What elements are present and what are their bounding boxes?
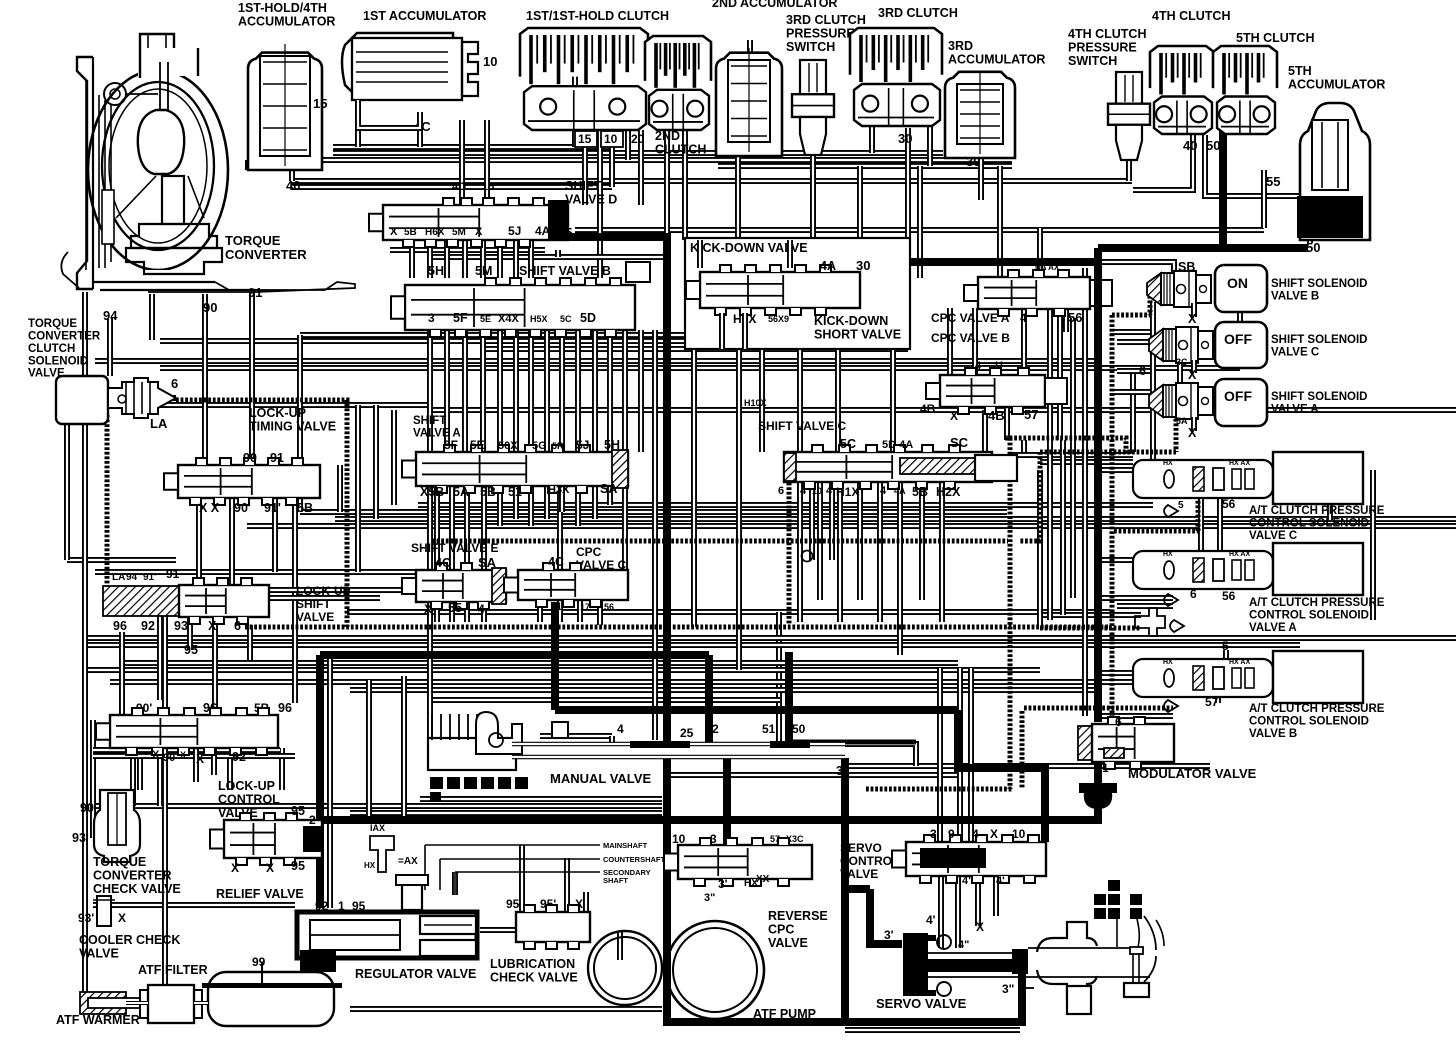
svg-text:50: 50 [792,722,806,736]
svg-text:SC: SC [950,435,969,450]
svg-text:17: 17 [580,602,590,612]
svg-text:PRESSURE: PRESSURE [1068,41,1137,55]
svg-text:25: 25 [558,225,572,240]
svg-text:5M: 5M [452,227,466,238]
svg-text:95: 95 [291,859,305,873]
svg-text:96: 96 [113,619,127,633]
svg-text:SHIFT: SHIFT [565,179,601,193]
svg-text:SHIFT: SHIFT [413,415,446,427]
svg-text:SHORT VALVE: SHORT VALVE [814,328,901,342]
svg-text:3RD CLUTCH: 3RD CLUTCH [878,6,958,20]
svg-text:SERVO: SERVO [840,841,882,855]
svg-text:56: 56 [1222,497,1236,511]
svg-text:COUNTERSHAFT: COUNTERSHAFT [603,855,665,864]
svg-text:1: 1 [664,766,671,780]
svg-text:H3X: H3X [548,484,570,496]
svg-text:95: 95 [291,804,305,818]
svg-text:X: X [231,861,239,875]
svg-text:X: X [118,911,126,925]
svg-text:3': 3' [884,928,894,942]
svg-text:X: X [950,409,958,423]
svg-text:5B: 5B [480,485,496,499]
svg-text:X: X [990,827,998,841]
svg-text:=AX: =AX [398,856,418,867]
svg-text:96: 96 [278,701,292,715]
svg-text:3RD: 3RD [948,39,973,53]
svg-text:90: 90 [80,801,94,815]
svg-text:CONTROL SOLENOID: CONTROL SOLENOID [1249,609,1369,621]
svg-text:ACCUMULATOR: ACCUMULATOR [948,53,1045,67]
svg-text:5J: 5J [576,438,589,452]
svg-text:1ST/1ST-HOLD CLUTCH: 1ST/1ST-HOLD CLUTCH [526,9,669,23]
svg-text:3: 3 [723,766,730,780]
svg-text:4': 4' [926,913,936,927]
svg-text:MANUAL VALVE: MANUAL VALVE [550,771,651,786]
svg-text:40: 40 [1183,138,1197,153]
svg-text:5H: 5H [604,438,620,452]
svg-text:3: 3 [930,827,937,841]
svg-text:H6X: H6X [425,227,445,238]
svg-text:25: 25 [680,726,694,740]
svg-text:4: 4 [972,827,979,841]
svg-text:55: 55 [448,601,462,615]
svg-text:5E: 5E [470,438,485,452]
svg-text:5F: 5F [453,311,468,325]
svg-text:3': 3' [718,877,728,891]
svg-text:5D: 5D [580,311,596,325]
svg-text:4: 4 [880,485,887,497]
svg-text:4A: 4A [894,486,906,496]
svg-text:3: 3 [428,311,435,325]
svg-text:MODULATOR VALVE: MODULATOR VALVE [1128,766,1257,781]
svg-text:CONTROL SOLENOID: CONTROL SOLENOID [1249,517,1369,529]
svg-text:1ST-HOLD/4TH: 1ST-HOLD/4TH [238,1,327,15]
svg-text:SOLENOID: SOLENOID [28,355,88,367]
svg-text:91: 91 [270,451,284,465]
svg-text:SHIFT VALVE E: SHIFT VALVE E [411,541,499,555]
svg-text:SHIFT SOLENOID: SHIFT SOLENOID [1271,278,1367,290]
svg-text:15: 15 [578,132,592,146]
svg-text:50: 50 [1306,240,1320,255]
svg-text:ATF PUMP: ATF PUMP [753,1007,816,1021]
svg-text:SWITCH: SWITCH [1068,54,1117,68]
svg-text:99: 99 [252,955,266,969]
svg-text:4: 4 [975,360,982,372]
svg-text:CPC: CPC [768,923,794,937]
svg-text:X: X [266,861,274,875]
svg-text:5M: 5M [475,264,492,278]
svg-text:HX AX: HX AX [1229,551,1250,558]
svg-text:COOLER CHECK: COOLER CHECK [79,933,180,947]
svg-text:4": 4" [962,875,973,887]
svg-text:X X: X X [199,501,220,515]
svg-text:56: 56 [1222,589,1236,603]
svg-text:9: 9 [948,827,955,841]
svg-text:HX AX: HX AX [1229,659,1250,666]
svg-text:SA: SA [600,482,617,496]
svg-text:51: 51 [762,722,776,736]
svg-text:5E: 5E [480,314,491,324]
svg-text:VALVE: VALVE [768,936,808,950]
svg-text:5B: 5B [404,227,417,238]
svg-text:95: 95 [506,897,520,911]
svg-text:VALVE B: VALVE B [1271,290,1319,302]
svg-text:94: 94 [126,572,138,583]
svg-text:5F: 5F [444,438,458,452]
svg-text:56: 56 [604,602,614,612]
svg-text:56: 56 [1068,310,1082,325]
svg-text:VALVE C: VALVE C [1271,346,1319,358]
svg-text:2: 2 [712,722,719,736]
svg-text:3C: 3C [1176,357,1188,367]
svg-text:4A: 4A [820,259,836,273]
svg-text:HX: HX [1163,659,1173,666]
svg-text:94: 94 [103,308,118,323]
svg-text:X: X [1188,426,1197,440]
svg-text:CONTROL: CONTROL [218,793,280,807]
svg-text:10: 10 [1012,827,1026,841]
svg-text:2ND: 2ND [655,129,680,143]
svg-text:VALVE: VALVE [840,867,878,881]
svg-text:LOCK-UP: LOCK-UP [249,406,306,420]
svg-text:4C: 4C [548,555,564,569]
svg-text:5R: 5R [552,441,564,451]
svg-text:1: 1 [556,601,562,613]
svg-text:50: 50 [1206,138,1220,153]
svg-text:10: 10 [483,54,497,69]
svg-text:H10X: H10X [744,398,767,408]
svg-text:SHIFT VALVE B: SHIFT VALVE B [519,264,611,278]
svg-text:5G: 5G [532,440,547,452]
svg-text:3RD CLUTCH: 3RD CLUTCH [786,13,866,27]
svg-text:TORQUE: TORQUE [28,318,77,330]
svg-text:X5B: X5B [420,485,444,499]
svg-text:CLUTCH: CLUTCH [655,143,706,157]
svg-text:4": 4" [958,939,969,951]
svg-text:6: 6 [171,376,178,391]
svg-text:VALVE C: VALVE C [1249,530,1297,542]
svg-text:X: X [1188,368,1197,382]
svg-text:90': 90' [234,501,251,515]
svg-text:OFF: OFF [1224,388,1252,404]
svg-text:CPC: CPC [576,545,602,559]
svg-text:PRESSURE: PRESSURE [786,27,855,41]
svg-text:SHIFT SOLENOID: SHIFT SOLENOID [1271,334,1367,346]
svg-text:30: 30 [856,258,870,273]
svg-text:4: 4 [617,722,624,736]
svg-text:IAX: IAX [370,823,385,833]
svg-text:CHECK VALVE: CHECK VALVE [490,971,578,985]
svg-text:92: 92 [232,750,246,764]
svg-text:SHIFT: SHIFT [296,597,331,611]
svg-text:RELIEF VALVE: RELIEF VALVE [216,887,304,901]
svg-text:4: 4 [800,485,807,497]
svg-text:LOCK-UP: LOCK-UP [218,779,275,793]
svg-text:6: 6 [778,485,784,497]
svg-text:ATF FILTER: ATF FILTER [138,963,208,977]
svg-text:REGULATOR VALVE: REGULATOR VALVE [355,967,476,981]
svg-text:XX: XX [756,874,770,885]
svg-text:H1X: H1X [836,485,859,499]
svg-text:LA: LA [150,416,168,431]
svg-text:CONTROL SOLENOID: CONTROL SOLENOID [1249,715,1369,727]
svg-text:95: 95 [184,643,198,657]
svg-text:3": 3" [836,764,849,778]
svg-text:OFF: OFF [1224,331,1252,347]
svg-text:4: 4 [478,602,485,616]
svg-text:4B: 4B [988,408,1005,423]
svg-text:30: 30 [898,131,912,146]
svg-text:MAINSHAFT: MAINSHAFT [603,841,648,850]
svg-text:SHIFT VALVE C: SHIFT VALVE C [758,419,847,433]
svg-text:SWITCH: SWITCH [786,40,835,54]
svg-text:93: 93 [72,831,86,845]
svg-text:3": 3" [1002,982,1014,996]
svg-text:KICK-DOWN: KICK-DOWN [814,314,888,328]
svg-text:15: 15 [482,181,494,193]
svg-text:HX AX: HX AX [1229,460,1250,467]
svg-text:HX: HX [1163,460,1173,467]
svg-text:5B: 5B [297,501,313,515]
svg-text:H5X: H5X [530,314,548,324]
svg-text:X: X [208,619,217,633]
svg-text:5: 5 [1222,639,1229,653]
svg-text:5A: 5A [453,485,469,499]
svg-text:ACCUMULATOR: ACCUMULATOR [1288,78,1385,92]
svg-text:ON: ON [1227,275,1248,291]
svg-text:5D 4A: 5D 4A [882,439,913,451]
svg-text:VALVE A: VALVE A [1271,403,1319,415]
svg-text:VALVE D: VALVE D [565,193,617,207]
svg-text:1: 1 [1102,761,1109,775]
svg-text:56X9: 56X9 [768,314,789,324]
svg-text:4D: 4D [452,181,466,193]
svg-text:TIMING VALVE: TIMING VALVE [249,420,336,434]
svg-text:X: X [180,750,186,760]
svg-text:4A: 4A [535,224,551,238]
svg-text:CLUTCH: CLUTCH [28,343,75,355]
svg-text:CPC VALVE B: CPC VALVE B [931,331,1010,345]
svg-text:H2X: H2X [936,485,961,499]
svg-text:5TH CLUTCH: 5TH CLUTCH [1236,31,1314,45]
svg-text:X: X [390,226,398,238]
svg-text:REVERSE: REVERSE [768,909,828,923]
svg-text:CHECK VALVE: CHECK VALVE [93,882,181,896]
svg-text:91': 91' [143,572,157,583]
svg-text:X: X [475,226,483,238]
svg-text:6: 6 [1115,715,1122,729]
svg-text:91': 91' [264,501,281,515]
svg-text:ATF WARMER: ATF WARMER [56,1013,140,1027]
svg-text:5TH: 5TH [1288,64,1312,78]
svg-text:10: 10 [812,486,822,496]
svg-text:VALVE: VALVE [296,610,334,624]
svg-text:5J: 5J [508,224,521,238]
svg-text:CONVERTER: CONVERTER [225,247,307,262]
svg-text:4TH CLUTCH: 4TH CLUTCH [1152,9,1230,23]
svg-text:SA: SA [478,555,497,570]
svg-text:4C: 4C [435,556,451,570]
svg-text:40: 40 [286,178,300,193]
svg-text:5B: 5B [912,485,928,499]
svg-text:91: 91 [166,567,180,581]
svg-text:5: 5 [1178,500,1184,511]
svg-text:6: 6 [1190,587,1197,601]
svg-text:91: 91 [248,285,262,300]
svg-text:CONVERTER: CONVERTER [28,330,101,342]
svg-text:57: 57 [1024,407,1038,422]
svg-text:92: 92 [141,619,155,633]
svg-text:5H: 5H [428,264,444,278]
svg-text:ACCUMULATOR: ACCUMULATOR [238,15,335,29]
svg-text:TORQUE: TORQUE [93,855,146,869]
svg-text:4: 4 [826,485,833,497]
svg-text:6: 6 [234,619,241,633]
svg-text:4: 4 [1020,311,1027,325]
svg-text:VALVE B: VALVE B [1249,728,1297,740]
svg-text:90: 90 [163,752,175,764]
svg-text:VALVE: VALVE [79,947,119,961]
svg-text:LOCK-UP: LOCK-UP [296,584,351,598]
svg-text:HX: HX [1163,551,1173,558]
svg-text:HX: HX [364,861,376,870]
svg-text:55: 55 [1266,174,1280,189]
svg-text:A/T CLUTCH PRESSURE: A/T CLUTCH PRESSURE [1249,597,1385,609]
svg-text:50X: 50X [498,440,518,452]
svg-text:SHIFT SOLENOID: SHIFT SOLENOID [1271,391,1367,403]
svg-text:51: 51 [508,485,522,499]
svg-text:93: 93 [174,619,188,633]
svg-text:LA: LA [112,572,125,583]
svg-text:4B: 4B [920,402,936,416]
svg-text:U: U [995,360,1003,372]
svg-text:X: X [152,749,160,761]
svg-text:DA AX: DA AX [1035,263,1060,272]
svg-text:TORQUE: TORQUE [225,233,281,248]
svg-text:2ND ACCUMULATOR: 2ND ACCUMULATOR [712,0,837,10]
svg-text:A/T CLUTCH PRESSURE: A/T CLUTCH PRESSURE [1249,703,1385,715]
svg-text:10: 10 [604,132,618,146]
svg-text:5A: 5A [1176,416,1188,426]
svg-text:VALVE A: VALVE A [1249,622,1297,634]
svg-text:15: 15 [313,96,327,111]
svg-text:CONVERTER: CONVERTER [93,869,171,883]
svg-text:5C: 5C [560,314,572,324]
svg-text:57: 57 [1205,695,1219,709]
svg-text:X4X: X4X [498,313,519,325]
svg-text:X: X [424,602,432,616]
svg-text:4': 4' [996,875,1005,887]
svg-text:X: X [196,752,204,766]
svg-text:4TH CLUTCH: 4TH CLUTCH [1068,27,1146,41]
svg-text:6: 6 [1139,364,1146,378]
svg-text:X: X [1188,312,1197,326]
svg-text:1ST ACCUMULATOR: 1ST ACCUMULATOR [363,9,486,23]
svg-text:CONTROL: CONTROL [840,854,899,868]
svg-text:SERVO VALVE: SERVO VALVE [876,996,967,1011]
svg-text:1: 1 [306,947,313,961]
svg-text:X: X [976,920,984,934]
svg-text:LUBRICATION: LUBRICATION [490,957,575,971]
svg-text:93': 93' [78,911,94,925]
svg-text:SHAFT: SHAFT [603,876,628,885]
svg-text:90: 90 [243,451,257,465]
svg-text:A/T CLUTCH PRESSURE: A/T CLUTCH PRESSURE [1249,505,1385,517]
svg-text:5C: 5C [840,437,856,451]
svg-text:2: 2 [309,813,316,827]
svg-text:20: 20 [631,132,645,146]
svg-text:3": 3" [704,892,715,904]
svg-text:90: 90 [203,300,217,315]
